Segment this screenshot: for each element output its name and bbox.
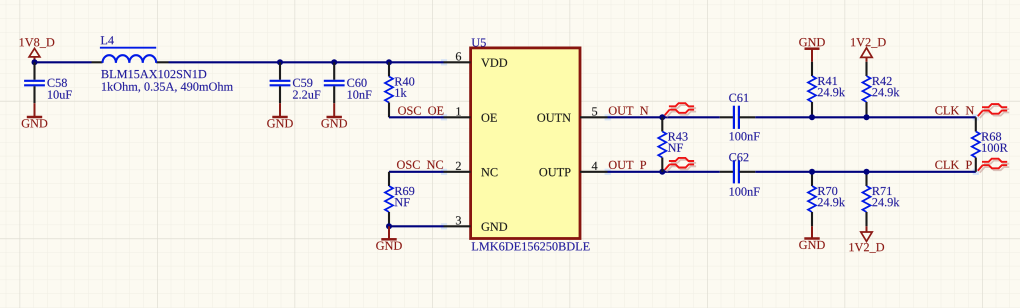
ground GND under C60 <box>321 103 347 127</box>
power port 1V2_D under R71 <box>849 226 884 252</box>
resistor R42 24.9k <box>863 62 900 118</box>
ground GND under R69 <box>376 226 402 250</box>
node OUT_N / R43 top <box>659 114 665 120</box>
resistor R70 24.9k <box>808 172 845 227</box>
power port 1V8_D <box>20 38 55 62</box>
diff pair directive CLK_N <box>978 104 1009 118</box>
node/junction 1V8_D rail <box>32 59 38 65</box>
diff pair directive CLK_P <box>978 159 1009 173</box>
node R70 top <box>809 169 815 175</box>
wire OUT_P net <box>608 171 976 173</box>
node R40 top <box>386 59 392 65</box>
wire OE net <box>389 116 444 118</box>
capacitor C61 100nF <box>720 94 760 141</box>
wire main 1V8 rail <box>35 61 444 63</box>
resistor R41 24.9k <box>808 62 845 118</box>
resistor R68 100R <box>972 117 1008 172</box>
diff pair directive OUT_N <box>665 103 696 117</box>
capacitor C59 <box>270 62 321 103</box>
wire NC net <box>389 171 444 173</box>
ground GND under C59 <box>267 103 293 127</box>
node R42 bottom <box>864 114 870 120</box>
ground GND above R41 <box>799 38 825 62</box>
net label CLK_P <box>935 161 972 169</box>
resistor R69 NF <box>385 172 414 227</box>
pin 1 OE <box>444 107 497 122</box>
capacitor C62 100nF <box>720 153 760 196</box>
node R41 bottom <box>809 114 815 120</box>
ground GND under C58 <box>22 103 48 127</box>
pin 4 OUTP <box>539 162 607 177</box>
node R71 top <box>864 169 870 175</box>
net label CLK_N <box>935 106 974 114</box>
node R69 bottom <box>386 223 392 229</box>
node C59 <box>277 59 283 65</box>
diff pair directive OUT_P <box>665 158 696 172</box>
capacitor C58 <box>24 62 72 103</box>
pin 6 VDD <box>444 52 508 67</box>
wire OUT_N net <box>608 116 976 118</box>
capacitor C60 <box>324 62 372 103</box>
connection markers <box>441 59 979 229</box>
wire GND pin3 net <box>389 225 444 227</box>
resistor R40 1k <box>385 62 414 117</box>
net label OUT_P <box>609 161 646 169</box>
op-amp/IC U5 LMK6DE156250BDLE body <box>471 38 590 250</box>
resistor R71 24.9k <box>863 172 900 227</box>
net label OUT_N <box>609 106 649 114</box>
pin 5 OUTN <box>537 107 607 121</box>
net label OSC_OE <box>398 106 443 114</box>
pin 3 GND <box>444 216 508 231</box>
net label OSC_NC <box>397 161 443 169</box>
node OUT_P / R43 bottom <box>659 169 665 175</box>
resistor R43 NF <box>658 117 687 172</box>
pin 2 NC <box>444 162 498 177</box>
power port 1V2_D above R42 <box>851 38 886 62</box>
inductor L4 BLM15AX102SN1D <box>92 36 233 92</box>
ground GND under R70 <box>799 226 825 249</box>
node C60 <box>331 59 337 65</box>
